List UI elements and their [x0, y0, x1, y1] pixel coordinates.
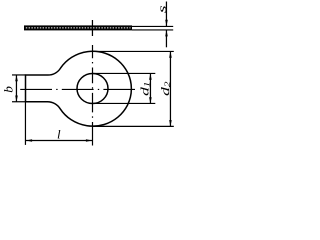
arrow l left	[26, 139, 32, 142]
inner hole circle d1	[77, 73, 108, 103]
vertical centerline	[92, 45, 94, 146]
dimension line s (upper segment)	[165, 2, 167, 27]
dimension line l	[26, 139, 93, 141]
extension line d2 top	[93, 50, 174, 52]
extension line d1 bottom	[93, 102, 156, 104]
centerline tick through section bar	[91, 20, 93, 36]
side view: washer section bar	[24, 25, 132, 30]
washer outline (plan view): tab + outer circle	[26, 51, 132, 126]
dimension line d1	[149, 74, 151, 104]
extension line d1 top	[93, 72, 156, 74]
arrow d2 down	[169, 120, 172, 126]
svg-text:b: b	[2, 86, 16, 93]
extension line b top	[12, 74, 26, 76]
arrow s down	[165, 20, 168, 26]
arrow b up	[15, 75, 18, 81]
extension line b bottom	[12, 101, 26, 103]
dimension line d2	[169, 51, 171, 126]
extension line d2 bottom	[93, 125, 174, 127]
horizontal centerline	[20, 88, 135, 90]
extension line s top	[132, 25, 173, 27]
svg-text:d2: d2	[159, 81, 172, 96]
svg-text:l: l	[57, 126, 61, 141]
arrow d1 down	[149, 97, 152, 103]
arrow s up	[165, 30, 168, 36]
svg-text:d1: d1	[139, 81, 152, 95]
arrow d1 up	[149, 74, 152, 80]
extension line s bottom	[132, 29, 173, 31]
svg-text:s: s	[155, 5, 168, 13]
arrow l right	[86, 139, 92, 142]
arrow b down	[15, 96, 18, 102]
extension line for l (tab end, downward)	[24, 103, 26, 145]
arrow d2 up	[169, 51, 172, 57]
dimension line s (lower segment)	[165, 30, 167, 47]
dimension line b	[15, 75, 17, 102]
